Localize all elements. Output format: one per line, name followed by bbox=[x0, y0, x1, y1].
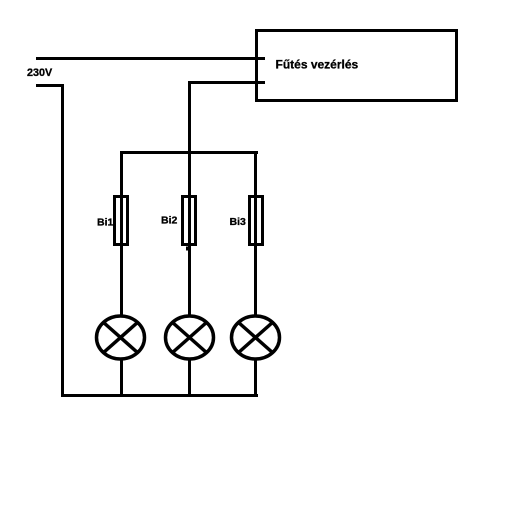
svg-text:Bi3: Bi3 bbox=[230, 216, 247, 228]
svg-text:Bi1: Bi1 bbox=[97, 217, 114, 229]
lamp 3 bbox=[232, 316, 280, 359]
wire: branch 1 upper (bus to lamp 1 through fuse Bi1) bbox=[120, 151, 123, 317]
wire: branch 2 upper (bus to lamp 2 through fuse Bi2) bbox=[188, 154, 191, 317]
wire L: top supply wire to control box bbox=[36, 57, 265, 60]
lamp 2 bbox=[166, 316, 214, 359]
wire: branch 3 upper (bus to lamp 3 through fuse Bi3) bbox=[254, 151, 257, 317]
stray mark at fuse Bi2 bottom bbox=[186, 247, 188, 251]
wire: top distribution bus bbox=[120, 151, 258, 154]
fuse Bi2 bbox=[161, 197, 196, 245]
wire: branch 2 lower (lamp 2 to bottom bus) bbox=[188, 358, 191, 397]
wire N: stub from 230V source bbox=[36, 84, 64, 87]
svg-text:230V: 230V bbox=[27, 67, 53, 79]
control unit box Fűtés vezérlés bbox=[257, 31, 457, 101]
fuse Bi3 bbox=[230, 197, 263, 245]
fuse Bi1 bbox=[97, 197, 128, 245]
wire: control box output horizontal bbox=[188, 81, 265, 84]
wire: branch 1 lower (lamp 1 to bottom bus) bbox=[120, 358, 123, 397]
wire: bottom return bus bbox=[61, 394, 258, 397]
wire: branch 3 lower (lamp 3 to bottom bus) bbox=[254, 358, 257, 397]
lamp 1 bbox=[97, 316, 145, 359]
wire N: left vertical down to bottom bus bbox=[61, 84, 64, 397]
svg-text:Fűtés vezérlés: Fűtés vezérlés bbox=[276, 58, 359, 72]
svg-text:Bi2: Bi2 bbox=[161, 215, 178, 227]
wire: middle vertical from box output to top bus bbox=[188, 81, 191, 154]
